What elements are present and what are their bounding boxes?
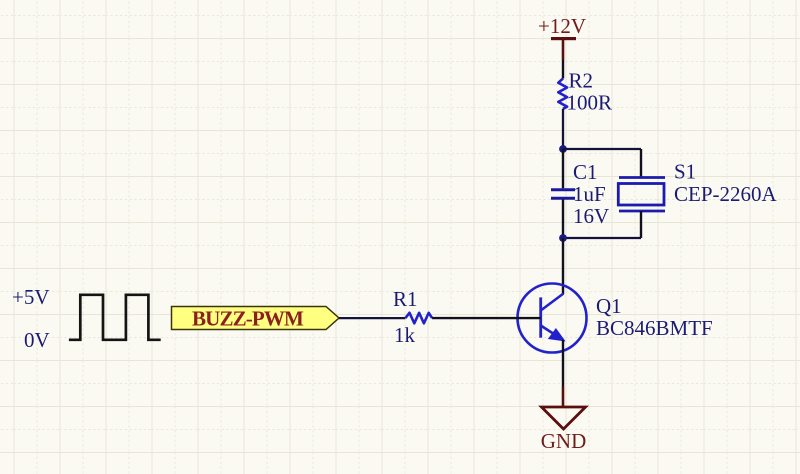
svg-text:1uF: 1uF — [573, 182, 606, 206]
wire (base, left of R1) — [339, 317, 405, 319]
waveform square wave — [69, 295, 161, 340]
svg-text:1k: 1k — [394, 323, 416, 347]
junction node (R2 / C1 / S1) — [559, 145, 567, 153]
svg-text:S1: S1 — [674, 160, 696, 184]
transistor Q1 — [518, 284, 713, 353]
wire — [640, 149, 642, 178]
buzzer S1 — [618, 160, 777, 212]
wire — [640, 211, 642, 238]
svg-text:Q1: Q1 — [596, 294, 622, 318]
wire — [563, 237, 641, 239]
svg-text:BC846BMTF: BC846BMTF — [596, 316, 713, 340]
capacitor C1 — [551, 149, 609, 238]
svg-text:0V: 0V — [24, 328, 50, 352]
svg-text:BUZZ-PWM: BUZZ-PWM — [192, 307, 304, 331]
junction node (C1 / S1 / Q1 collector) — [559, 234, 567, 242]
wire — [563, 148, 641, 150]
svg-text:R1: R1 — [393, 287, 418, 311]
wire (collector) — [562, 238, 564, 294]
net label flag BUZZ-PWM — [172, 307, 340, 331]
svg-text:16V: 16V — [573, 204, 609, 228]
svg-text:+12V: +12V — [538, 14, 586, 38]
wire (emitter) — [562, 340, 564, 387]
svg-text:R2: R2 — [569, 69, 594, 93]
svg-text:100R: 100R — [567, 91, 613, 115]
resistor R2 — [558, 60, 612, 149]
svg-text:C1: C1 — [573, 160, 598, 184]
resistor R1 — [393, 287, 432, 347]
ground GND — [541, 387, 587, 453]
svg-text:CEP-2260A: CEP-2260A — [674, 182, 778, 206]
svg-text:+5V: +5V — [12, 285, 50, 309]
wire (base, right of R1 to Q1) — [432, 317, 541, 319]
svg-text:GND: GND — [541, 429, 587, 453]
power +12V — [538, 14, 586, 60]
